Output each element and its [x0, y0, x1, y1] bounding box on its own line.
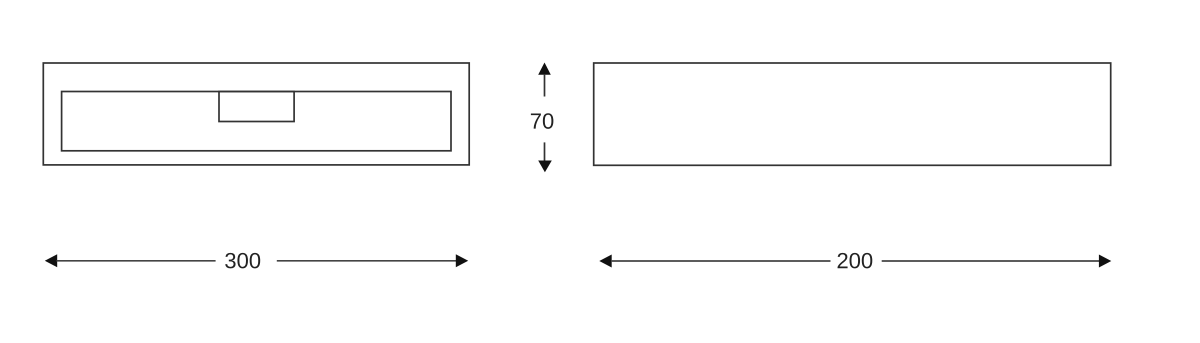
width dimension 300: right line segment: [277, 260, 457, 262]
depth dimension 200: right arrowhead: [1099, 255, 1111, 268]
width dimension 300: left line segment: [57, 260, 216, 262]
height dimension: label 70: [531, 113, 553, 129]
depth dimension 200: label 200: [838, 253, 873, 269]
height dimension: down arrowhead: [538, 161, 552, 173]
front view: outer body rectangle: [43, 63, 469, 165]
depth dimension 200: right line segment: [882, 260, 1100, 262]
front view: lamp holder box: [219, 92, 294, 122]
height dimension: upper shaft: [544, 74, 546, 97]
depth dimension 200: left arrowhead: [599, 255, 611, 268]
depth dimension 200: left line segment: [611, 260, 831, 262]
side view: body rectangle: [594, 63, 1111, 165]
width dimension 300: label 300: [225, 253, 260, 269]
width dimension 300: left arrowhead: [45, 254, 57, 267]
height dimension: up arrowhead: [538, 63, 551, 75]
front view: inner recess rectangle: [62, 92, 451, 151]
width dimension 300: right arrowhead: [456, 254, 468, 267]
height dimension: lower shaft: [544, 142, 546, 161]
